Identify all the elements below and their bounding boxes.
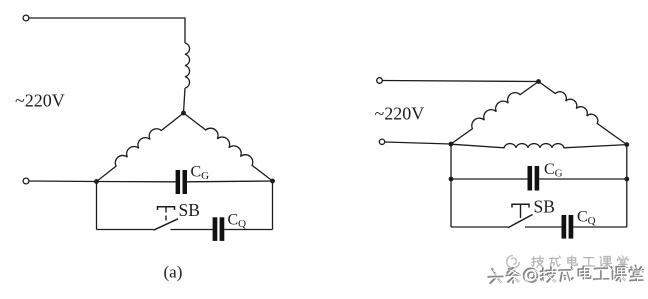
wire switch to capacitor CQ (right diagram) xyxy=(525,226,562,228)
wire bottom left segment to switch (right diagram) xyxy=(451,226,508,228)
main winding (vertical coil) left diagram xyxy=(185,43,190,88)
wire node A down (left side of lower loop) xyxy=(96,182,98,230)
wire bottom left segment to switch xyxy=(97,229,154,231)
node on left wire at CG row (right diagram) xyxy=(449,177,454,182)
switch SB actuator bracket xyxy=(158,207,175,210)
terminal upper-left (left diagram) xyxy=(23,15,29,21)
wire switch to capacitor CQ xyxy=(171,229,213,231)
wire from coil to center node xyxy=(184,88,186,113)
terminal lower-left (right diagram) xyxy=(379,139,384,144)
svg-text:(a): (a) xyxy=(164,263,183,282)
capacitor CG (right diagram) plates xyxy=(528,166,533,191)
bottom winding (horizontal coil) right diagram xyxy=(451,144,627,148)
node left corner (right diagram) xyxy=(449,142,454,147)
wire capacitor CQ to right side of loop xyxy=(224,229,272,231)
node on right wire at CG row (right diagram) xyxy=(624,177,629,182)
wire CG row right segment (right diagram) xyxy=(539,178,627,180)
right winding (diagonal coil) right diagram xyxy=(539,77,630,144)
svg-text:~220V: ~220V xyxy=(375,104,425,124)
switch SB (right diagram): blade xyxy=(508,215,533,228)
wire capacitor CQ to right side (right diagram) xyxy=(573,226,627,228)
node apex (right diagram) xyxy=(536,79,541,84)
capacitor CQ (right diagram) plates xyxy=(562,215,567,239)
wire lower terminal to left corner node xyxy=(385,142,451,144)
wire right corner down (right side, right diagram) xyxy=(626,145,628,227)
node B (right, end of right winding) xyxy=(270,179,275,184)
watermark logo swirl xyxy=(507,256,520,269)
capacitor CG (left diagram) plates xyxy=(176,170,181,194)
right stator winding (diagonal coil) left diagram xyxy=(184,108,277,181)
wire lower terminal to node A xyxy=(29,180,97,183)
wire node B down (right side of lower loop) xyxy=(272,181,274,230)
switch SB actuator stem (right diagram) xyxy=(520,204,522,218)
wire CG row left segment (right diagram) xyxy=(451,178,528,180)
watermark line 1: 技成电工课堂 xyxy=(532,256,544,267)
svg-text:~220V: ~220V xyxy=(15,91,65,111)
left winding (diagonal coil) right diagram xyxy=(448,77,539,144)
svg-text:SB: SB xyxy=(534,197,555,217)
left stator winding (diagonal coil) left diagram xyxy=(93,108,184,181)
terminal upper-left (right diagram) xyxy=(377,78,383,84)
node right corner (right diagram) xyxy=(624,142,629,147)
node: winding junction (left diagram apex) xyxy=(181,111,186,116)
node A (left, on mains wire) xyxy=(94,179,99,184)
switch SB actuator stem xyxy=(165,207,167,213)
capacitor CQ (left diagram) plates xyxy=(213,217,218,241)
switch SB (pushbutton, left diagram): blade xyxy=(154,219,179,230)
watermark line 2: 头条@技成电工课堂 xyxy=(488,265,644,284)
wire from upper terminal to top of main winding xyxy=(29,18,185,43)
terminal lower-left (left diagram) xyxy=(23,178,29,184)
wire node A to capacitor CG xyxy=(97,181,176,183)
svg-text:SB: SB xyxy=(179,200,200,220)
wire left corner down (left side, right diagram) xyxy=(450,144,452,227)
wire capacitor CG to node B xyxy=(187,180,273,183)
switch SB actuator bracket (right diagram) xyxy=(512,204,529,207)
wire upper terminal to apex node xyxy=(383,81,539,82)
